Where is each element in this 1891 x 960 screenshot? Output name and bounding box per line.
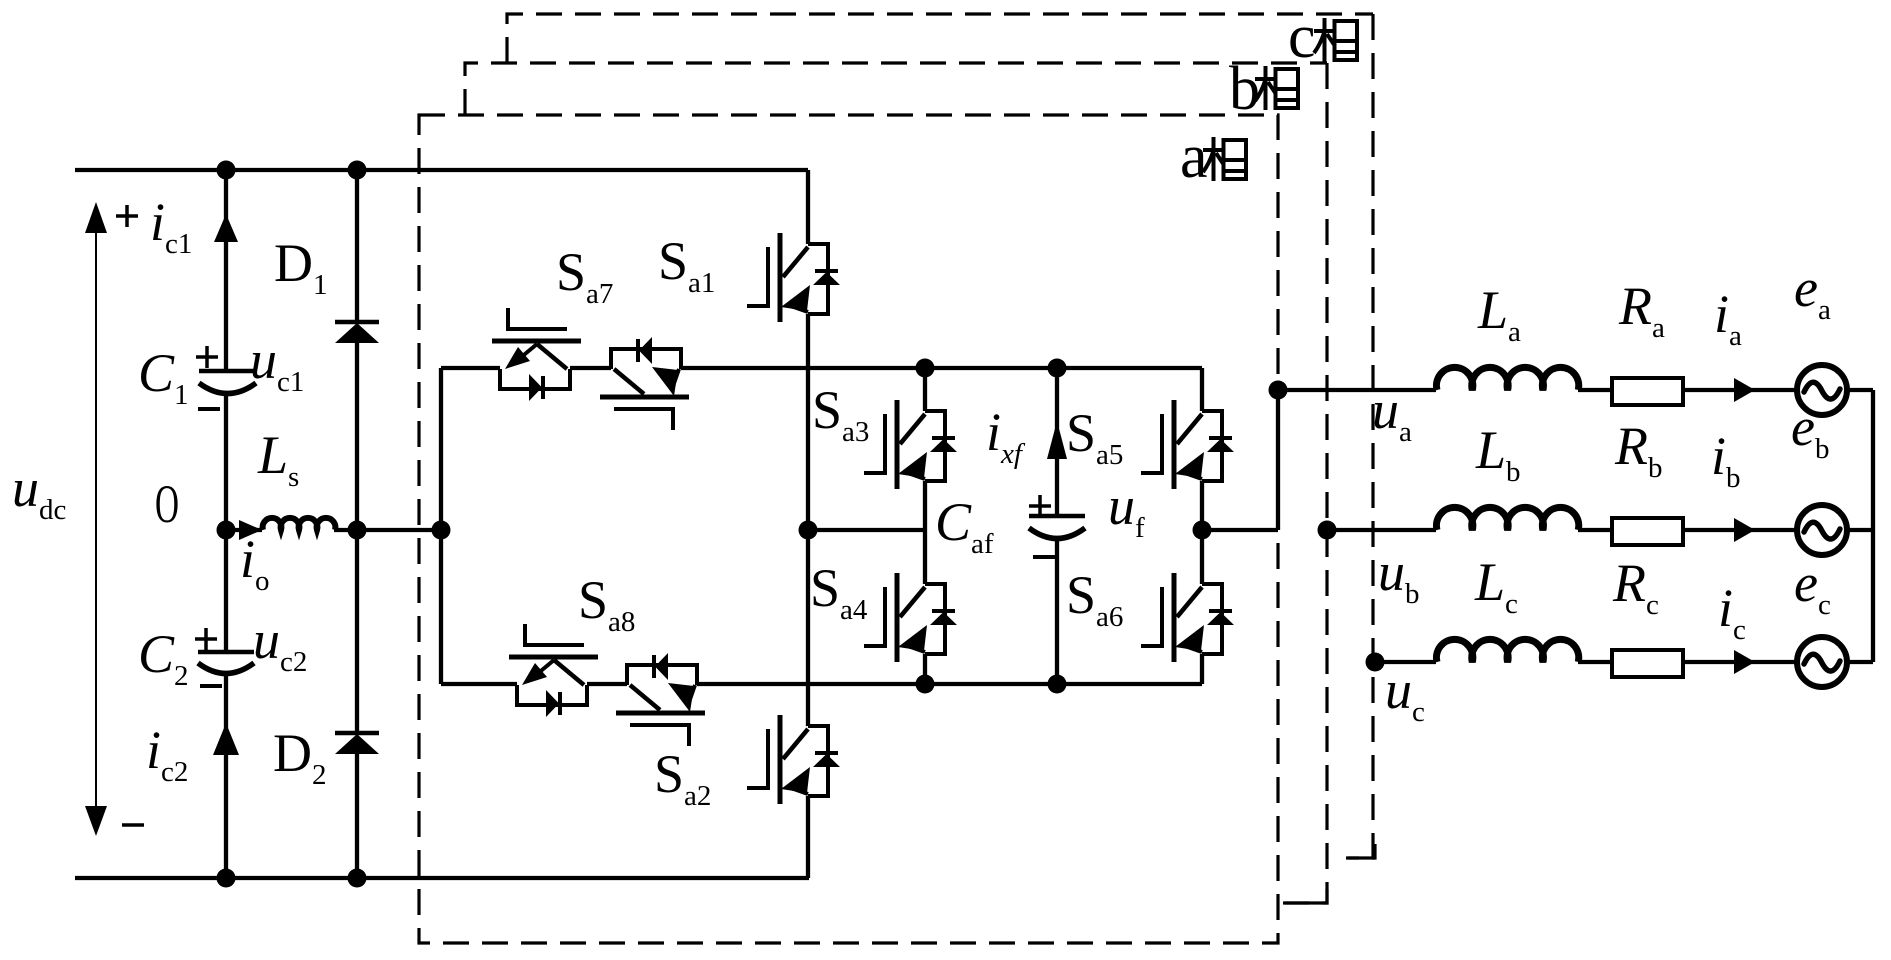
node Caf top <box>1048 359 1067 378</box>
wire phase b to inductor <box>1327 528 1436 532</box>
wire D2 branch upper <box>355 530 359 733</box>
minus sign udc <box>122 823 144 827</box>
wire left bridge vertical <box>439 368 443 684</box>
inductor Lb coil <box>1436 507 1578 530</box>
diode D1 <box>335 322 379 343</box>
dashed box phase c top <box>507 14 1373 63</box>
inductor La coil <box>1436 367 1578 390</box>
svg-text:io: io <box>240 529 270 597</box>
wire Sa4 emitter stub <box>923 654 927 684</box>
svg-text:uc: uc <box>1385 660 1425 728</box>
dashed box phase b top <box>465 63 1327 115</box>
transistor Sa4 <box>864 573 957 662</box>
svg-text:D2: D2 <box>273 723 327 791</box>
svg-text:La: La <box>1477 280 1521 348</box>
capacitor Caf <box>1029 516 1085 539</box>
dashed box phase c right <box>1348 14 1373 858</box>
wire bottom DC rail <box>75 876 809 880</box>
svg-text:Ls: Ls <box>257 425 299 493</box>
wire Sa1 emitter to Sa2 collector <box>806 314 810 726</box>
wire leg midpoint link <box>808 528 925 532</box>
arrow ib <box>1734 518 1755 542</box>
transistor Sa2 <box>747 715 840 804</box>
svg-text:ic2: ic2 <box>146 720 188 788</box>
svg-text:ia: ia <box>1714 284 1742 352</box>
node top rail C branch <box>217 161 236 180</box>
wire phase c to inductor <box>1375 660 1436 664</box>
svg-text:b: b <box>1229 55 1260 123</box>
svg-text:ixf: ixf <box>986 402 1026 470</box>
dashed box phase b corner <box>1285 889 1327 903</box>
wire Lc to Rc <box>1578 660 1613 664</box>
wire Sa5 emitter to Sa6 collector <box>1200 481 1204 584</box>
arrow ic1 <box>214 214 238 242</box>
diode D2 <box>335 733 379 754</box>
capacitor C2 <box>198 652 254 674</box>
svg-text:Sa2: Sa2 <box>654 744 711 812</box>
transistor Sa7 right <box>600 337 689 430</box>
wire Sa3 emitter to Sa4 collector <box>923 481 927 584</box>
plus sign C1 <box>196 346 218 368</box>
svg-text:ub: ub <box>1378 542 1420 610</box>
AC source eb <box>1797 505 1847 555</box>
inductor Lc coil <box>1436 639 1578 662</box>
svg-text:Ra: Ra <box>1618 276 1665 344</box>
node Sa5 midpoint <box>1193 521 1212 540</box>
wire right bus <box>1871 390 1875 662</box>
resistor Rb <box>1612 518 1683 545</box>
transistor Sa8 left <box>509 624 598 717</box>
svg-text:c: c <box>1288 3 1316 71</box>
node leg1 midpoint <box>799 521 818 540</box>
wire Ls coil to bridge <box>334 528 441 532</box>
wire capacitor branch lower <box>224 673 228 878</box>
udc measure arrow <box>85 202 107 836</box>
wire mid bottom rail segment 2 <box>587 682 627 686</box>
wire Rb to source eb <box>1683 528 1798 532</box>
wire mid top rail segment 3 <box>681 366 1202 370</box>
dashed box phase a <box>419 115 1278 943</box>
arrow io <box>239 520 262 540</box>
svg-text:ea: ea <box>1794 258 1831 326</box>
wire capacitor branch upper <box>224 170 228 371</box>
svg-text:Sa5: Sa5 <box>1066 403 1123 471</box>
AC source ec <box>1797 637 1847 687</box>
svg-text:ic: ic <box>1718 578 1746 646</box>
wire phase a to inductor <box>1278 388 1436 392</box>
wire Sa6 emitter stub <box>1200 654 1204 684</box>
node phase b output <box>1318 521 1337 540</box>
dashed box phase b right <box>1270 63 1327 903</box>
wire ea to right bus <box>1846 388 1873 392</box>
node Caf bottom <box>1048 675 1067 694</box>
minus sign C1 <box>198 407 220 411</box>
wire D1 branch lower <box>355 343 359 530</box>
svg-text:Lb: Lb <box>1475 420 1521 488</box>
svg-text:Caf: Caf <box>935 492 994 560</box>
svg-text:uc2: uc2 <box>253 610 307 678</box>
node bridge input <box>432 521 451 540</box>
svg-text:D1: D1 <box>274 233 328 301</box>
transistor Sa3 <box>864 400 957 489</box>
node O <box>217 521 236 540</box>
resistor Ra <box>1612 378 1683 405</box>
wire mid bottom rail segment 1 <box>441 682 517 686</box>
arrow ia <box>1734 378 1755 402</box>
node Sa4 bottom <box>916 675 935 694</box>
wire Rc to source ec <box>1682 660 1798 664</box>
label phase c <box>1288 3 1357 71</box>
arrow ic2 <box>213 723 239 755</box>
node Ls D branch <box>348 521 367 540</box>
node bottom rail D2 branch <box>348 869 367 888</box>
dashed box phase c corner <box>1346 844 1375 858</box>
svg-text:Rb: Rb <box>1614 416 1663 484</box>
transistor Sa7 left <box>492 308 581 401</box>
transistor Sa1 <box>747 233 840 322</box>
svg-text:ib: ib <box>1711 426 1741 494</box>
plus sign Caf <box>1029 495 1051 517</box>
node phase a output <box>1269 381 1288 400</box>
svg-text:C1: C1 <box>138 343 189 411</box>
svg-text:Lc: Lc <box>1474 552 1518 620</box>
inductor Ls coil <box>263 518 336 530</box>
label phase b <box>1229 55 1298 123</box>
minus sign Caf <box>1033 555 1055 559</box>
wire mid bottom rail segment 3 <box>697 682 1202 686</box>
transistor Sa8 right <box>616 653 705 746</box>
wire Ls node O to coil <box>226 528 262 532</box>
node bottom rail C branch <box>217 869 236 888</box>
wire Sa2 emitter <box>806 796 810 878</box>
node top rail D1 branch <box>348 161 367 180</box>
node Sa3 top <box>916 359 935 378</box>
wire capacitor branch middle <box>224 392 228 652</box>
AC source ea <box>1797 365 1847 415</box>
svg-text:uf: uf <box>1108 476 1145 544</box>
capacitor C1 <box>199 371 256 394</box>
svg-text:O: O <box>155 474 179 534</box>
wire ec to right bus <box>1846 660 1873 664</box>
wire phase a output vertical <box>1276 390 1280 530</box>
wire Caf lower <box>1055 538 1059 684</box>
wire D1 branch upper <box>355 170 359 322</box>
wire mid top rail segment 2 <box>570 366 611 370</box>
wire Sa5 collector stub <box>1200 368 1204 411</box>
wire eb to right bus <box>1846 528 1873 532</box>
transistor Sa6 <box>1141 573 1234 662</box>
svg-text:Sa7: Sa7 <box>556 242 613 310</box>
svg-text:Sa8: Sa8 <box>578 570 635 638</box>
wire D2 branch lower <box>355 754 359 878</box>
svg-text:Sa3: Sa3 <box>812 380 869 448</box>
arrow ic <box>1734 650 1755 674</box>
wire Caf upper <box>1055 368 1059 516</box>
minus sign C2 <box>200 684 222 688</box>
svg-text:uc1: uc1 <box>250 330 304 398</box>
transistor Sa5 <box>1141 400 1234 489</box>
svg-text:Sa6: Sa6 <box>1066 565 1123 633</box>
wire phase a output horizontal <box>1202 528 1278 532</box>
wire Ra to source ea <box>1683 388 1798 392</box>
plus sign udc <box>116 205 138 227</box>
svg-text:Sa1: Sa1 <box>658 231 715 299</box>
node phase c output <box>1366 653 1385 672</box>
svg-text:a: a <box>1180 123 1208 191</box>
svg-text:Rc: Rc <box>1612 553 1659 621</box>
svg-text:ic1: ic1 <box>150 192 192 260</box>
wire Sa1 collector <box>806 170 810 244</box>
svg-text:udc: udc <box>12 458 66 526</box>
wire Sa3 collector stub <box>923 368 927 411</box>
label phase a <box>1180 123 1246 191</box>
wire mid top rail segment 1 <box>441 366 500 370</box>
wire Lb to Rb <box>1578 528 1614 532</box>
svg-text:eb: eb <box>1791 397 1829 465</box>
plus sign C2 <box>195 628 217 650</box>
svg-text:ec: ec <box>1794 553 1831 621</box>
resistor Rc <box>1612 650 1683 677</box>
wire top DC rail <box>75 168 808 172</box>
wire La to Ra <box>1578 388 1614 392</box>
svg-text:C2: C2 <box>138 624 189 692</box>
svg-text:Sa4: Sa4 <box>810 558 868 626</box>
arrow ixf <box>1047 421 1067 459</box>
